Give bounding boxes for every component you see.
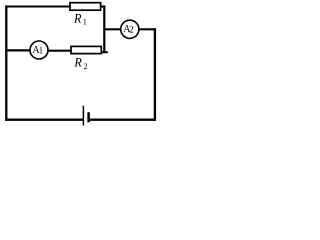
wire left edge (5, 5, 7, 120)
wire junction to A2 (104, 28, 121, 30)
svg-text:R: R (73, 56, 82, 70)
wire left edge to A1 (5, 49, 30, 51)
battery positive plate (long) (82, 106, 84, 126)
wire A1 to R2 (48, 50, 72, 52)
battery negative plate (short) (87, 112, 90, 122)
wire A2 to right edge (139, 28, 156, 30)
resistor R2 (71, 46, 101, 53)
svg-text:R: R (73, 11, 82, 25)
svg-text:2: 2 (129, 25, 134, 36)
wire bottom left to battery (5, 118, 83, 120)
svg-text:1: 1 (83, 18, 87, 27)
wire battery to bottom right (90, 118, 157, 120)
svg-text:1: 1 (39, 45, 44, 55)
resistor R1 (70, 3, 101, 11)
wire top (5, 5, 70, 7)
ammeter A2 (121, 20, 139, 38)
wire R1 to junction corner (101, 5, 106, 7)
wire junction vertical (103, 6, 105, 54)
svg-text:2: 2 (84, 62, 88, 71)
wire R2 to junction (101, 51, 108, 53)
wire right edge (154, 28, 156, 121)
ammeter A1 (30, 41, 48, 59)
